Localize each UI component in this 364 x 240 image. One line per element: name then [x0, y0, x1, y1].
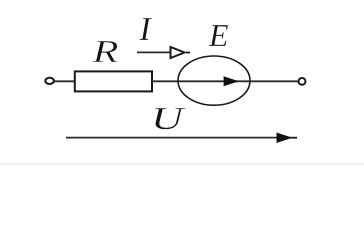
svg-text:E: E	[208, 17, 229, 53]
wire	[55, 80, 76, 82]
source arrowhead	[224, 76, 239, 86]
wire	[152, 80, 298, 82]
left terminal	[45, 78, 54, 84]
svg-text:I: I	[139, 11, 153, 48]
svg-text:R: R	[91, 33, 119, 69]
voltage arrow U	[66, 133, 297, 144]
svg-text:U: U	[151, 100, 186, 136]
current arrow I	[137, 47, 190, 58]
source E ellipse	[178, 56, 250, 105]
right terminal	[299, 78, 306, 85]
resistor R	[75, 71, 152, 91]
bottom border line	[0, 163, 364, 165]
